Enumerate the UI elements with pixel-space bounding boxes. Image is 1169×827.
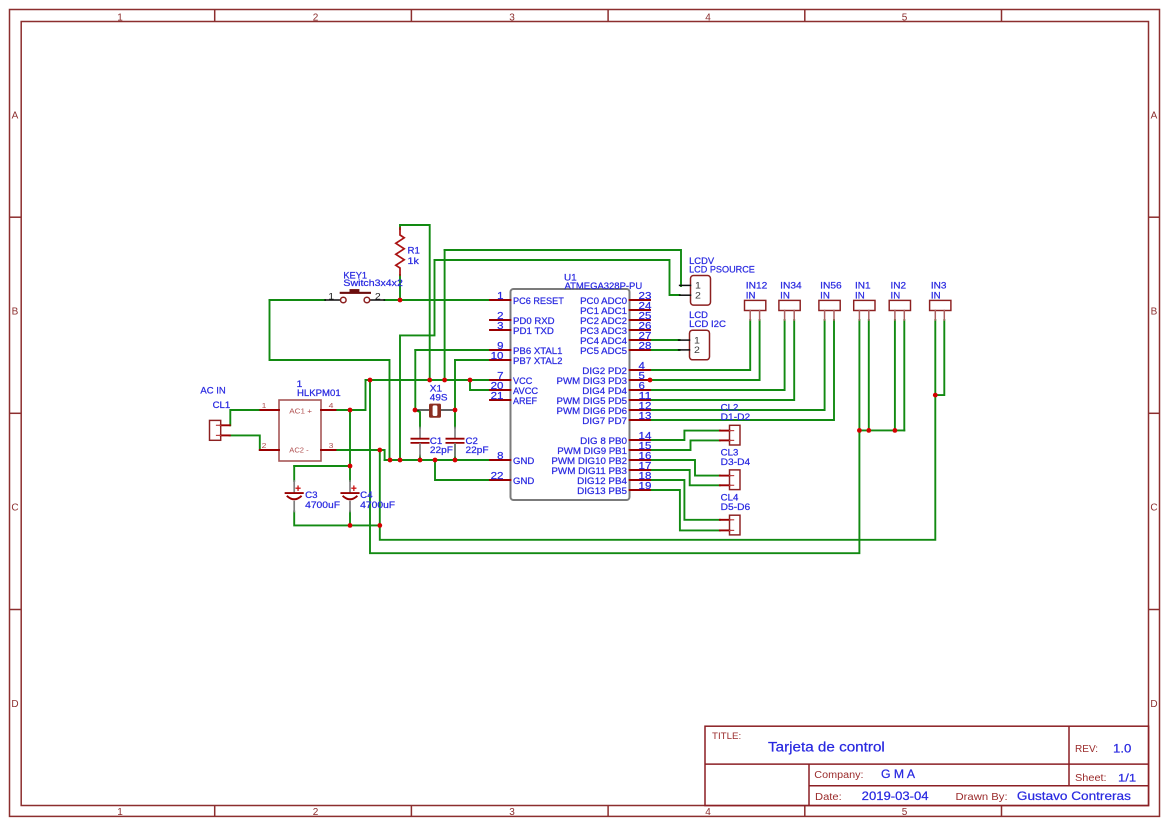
crystal X1 49S	[417, 384, 453, 418]
HLKPM01 pin 3	[321, 441, 336, 450]
wire: CL1 pin1 to HLKPM01 pin1	[230, 410, 260, 425]
wire: U1 pin9 XTAL1 to crystal	[415, 350, 490, 410]
svg-text:D1-D2: D1-D2	[721, 412, 751, 422]
U1 pin 14 (DIG 8 PB0)	[580, 431, 652, 446]
svg-text:IN: IN	[891, 290, 901, 300]
svg-text:A: A	[12, 111, 19, 122]
svg-text:PWM DIG3 PD3: PWM DIG3 PD3	[557, 376, 628, 386]
svg-text:PC6 RESET: PC6 RESET	[513, 296, 564, 306]
wire: U1 pin15 to CL2	[650, 440, 720, 450]
junction (379.8,525.4)	[377, 523, 382, 528]
HLKPM01 pin 2	[260, 441, 279, 450]
svg-text:PB6 XTAL1: PB6 XTAL1	[513, 346, 563, 356]
U1 pin 24 (PC1 ADC1)	[580, 301, 652, 316]
connector IN34 (IN)	[779, 281, 802, 321]
wire: U1 pin14 to CL2	[650, 431, 720, 440]
svg-text:28: 28	[639, 341, 652, 352]
wire: U1 pin27/pin28 to LCD I2C	[650, 340, 680, 350]
svg-text:3: 3	[329, 441, 334, 450]
svg-text:PC2 ADC2: PC2 ADC2	[580, 316, 627, 326]
U1 pin 20 (AVCC)	[490, 381, 538, 396]
svg-text:Company:: Company:	[814, 770, 863, 781]
connector CL1 (AC IN)	[200, 385, 230, 440]
junction (435,460)	[433, 458, 438, 463]
svg-text:22pF: 22pF	[430, 445, 453, 455]
junction (455,460)	[453, 458, 458, 463]
wire: IN1/IN2 pin tie	[859, 320, 904, 430]
svg-text:PWM DIG5 PD5: PWM DIG5 PD5	[557, 396, 628, 406]
connector LCDV (LCD PSOURCE)	[680, 256, 755, 305]
junction (379.8,450)	[377, 448, 382, 453]
svg-text:REV:: REV:	[1075, 744, 1098, 755]
wire: IN3 pin tie	[935, 320, 944, 395]
resistor R1 1k	[396, 228, 420, 275]
svg-text:G M A: G M A	[881, 769, 915, 781]
svg-text:1k: 1k	[408, 256, 420, 266]
U1 pin 3 (PD1 TXD)	[490, 321, 554, 336]
U1 pin 26 (PC3 ADC3)	[580, 321, 652, 336]
svg-text:PD1 TXD: PD1 TXD	[513, 326, 554, 336]
connector IN1 (IN)	[854, 281, 875, 321]
wire: U1 pin11 to IN34	[650, 320, 794, 400]
svg-text:D: D	[11, 699, 18, 710]
svg-text:PC3 ADC3: PC3 ADC3	[580, 326, 627, 336]
svg-text:AREF: AREF	[513, 396, 537, 406]
svg-text:ATMEGA328P-PU: ATMEGA328P-PU	[565, 281, 643, 291]
wire: CL1 pin2 to HLKPM01 pin2	[230, 435, 260, 450]
wire: C1 leads	[415, 410, 420, 460]
svg-text:PWM DIG6 PD6: PWM DIG6 PD6	[557, 406, 628, 416]
wire: HLKPM01 pin3 to GND row	[336, 450, 491, 460]
title block	[705, 726, 1149, 805]
svg-text:AC2 -: AC2 -	[289, 445, 309, 454]
svg-text:Switch3x4x2: Switch3x4x2	[343, 278, 403, 288]
svg-text:A: A	[1151, 111, 1158, 122]
capacitor C1 22pF	[411, 428, 453, 456]
U1 pin 10 (PB7 XTAL2)	[490, 351, 563, 366]
svg-text:1: 1	[694, 335, 700, 345]
svg-text:IN: IN	[931, 290, 941, 300]
svg-text:IN3: IN3	[931, 281, 947, 291]
wire: pin3 net down and across to IN3	[380, 320, 936, 540]
svg-text:DIG4 PD4: DIG4 PD4	[582, 386, 627, 396]
wire: U1 pin5 to IN12	[650, 320, 760, 380]
svg-text:IN: IN	[820, 290, 830, 300]
svg-text:GND: GND	[513, 456, 535, 466]
svg-text:22: 22	[491, 471, 504, 482]
svg-text:49S: 49S	[430, 392, 448, 402]
svg-text:PD0 RXD: PD0 RXD	[513, 316, 555, 326]
U1 pin 22 (GND)	[490, 471, 535, 486]
junction (429.7,380)	[427, 378, 432, 383]
svg-text:C: C	[11, 503, 18, 514]
svg-text:5: 5	[902, 807, 908, 818]
svg-text:D: D	[1150, 699, 1157, 710]
svg-text:1: 1	[695, 281, 701, 291]
svg-text:4: 4	[705, 12, 711, 23]
svg-text:4700uF: 4700uF	[305, 500, 340, 510]
U1 pin 5 (PWM DIG3 PD3)	[557, 371, 651, 386]
svg-text:D5-D6: D5-D6	[721, 502, 751, 512]
U1 pin 15 (PWM DIG9 PB1)	[557, 441, 652, 456]
svg-text:GND: GND	[513, 476, 535, 486]
svg-text:C4: C4	[360, 490, 372, 500]
svg-text:IN2: IN2	[891, 281, 907, 291]
junction (415,410)	[413, 408, 418, 413]
U1 pin 17 (PWM DIG11 PB3)	[551, 461, 651, 476]
svg-text:Gustavo Contreras: Gustavo Contreras	[1017, 789, 1131, 803]
svg-text:Drawn By:: Drawn By:	[956, 792, 1008, 803]
svg-text:2: 2	[694, 345, 700, 355]
wire: U1 pin6 to IN34	[650, 320, 785, 390]
junction (455,410)	[453, 408, 458, 413]
connector IN12 (IN)	[745, 281, 768, 321]
svg-text:DIG 8 PB0: DIG 8 PB0	[580, 436, 627, 446]
wire: U1 pin18 to CL4	[650, 480, 720, 520]
svg-text:TITLE:: TITLE:	[712, 731, 741, 742]
svg-text:21: 21	[491, 391, 504, 402]
U1 pin 18 (DIG12 PB4)	[577, 471, 652, 486]
svg-text:4: 4	[329, 401, 334, 410]
junction (444.6,380)	[442, 378, 447, 383]
svg-text:CL2: CL2	[721, 403, 739, 413]
junction (350,466)	[348, 464, 353, 469]
svg-text:3: 3	[497, 321, 504, 332]
junction (350,525.4)	[348, 523, 353, 528]
svg-text:IN1: IN1	[855, 281, 871, 291]
svg-text:1: 1	[328, 291, 334, 301]
connector LCD (LCD I2C)	[679, 310, 727, 360]
junction (350,410)	[348, 408, 353, 413]
connector CL4 (D5-D6)	[720, 493, 750, 535]
svg-text:1: 1	[117, 807, 123, 818]
wire: U1 pin17 to CL3	[650, 470, 720, 485]
svg-text:LCD PSOURCE: LCD PSOURCE	[689, 264, 755, 274]
junction (420,460)	[418, 458, 423, 463]
svg-text:2: 2	[375, 291, 381, 301]
connector CL2 (D1-D2)	[720, 403, 750, 445]
svg-text:4: 4	[705, 807, 711, 818]
U1 pin 11 (PWM DIG5 PD5)	[557, 391, 652, 406]
capacitor C4 4700uF	[341, 481, 395, 512]
svg-text:DIG2 PD2: DIG2 PD2	[582, 366, 627, 376]
svg-text:10: 10	[491, 351, 504, 362]
U1 pin 21 (AREF)	[490, 391, 537, 406]
svg-text:IN: IN	[855, 290, 865, 300]
svg-text:2019-03-04: 2019-03-04	[862, 791, 929, 803]
svg-text:3: 3	[509, 12, 515, 23]
wire: GND row jog to U1 pin22	[435, 460, 490, 480]
svg-text:2: 2	[313, 807, 319, 818]
U1 pin 28 (PC5 ADC5)	[580, 341, 652, 356]
U1 pin 7 (VCC)	[490, 371, 533, 386]
svg-text:Tarjeta de control: Tarjeta de control	[768, 740, 885, 755]
svg-text:PB7 XTAL2: PB7 XTAL2	[513, 356, 563, 366]
svg-text:PWM DIG11 PB3: PWM DIG11 PB3	[551, 466, 627, 476]
U1 pin 2 (PD0 RXD)	[490, 311, 555, 326]
svg-text:PWM DIG10 PB2: PWM DIG10 PB2	[551, 456, 627, 466]
svg-text:PC0 ADC0: PC0 ADC0	[580, 296, 627, 306]
svg-text:DIG12 PB4: DIG12 PB4	[577, 476, 627, 486]
wire: U1 pin16 to CL3	[650, 460, 720, 476]
U1 pin 4 (DIG2 PD2)	[582, 361, 650, 376]
junction (859.4,430.4)	[857, 428, 862, 433]
U1 pin 19 (DIG13 PB5)	[577, 481, 652, 496]
svg-text:IN56: IN56	[820, 281, 842, 291]
svg-text:1/1: 1/1	[1118, 773, 1136, 785]
svg-text:PWM DIG9 PB1: PWM DIG9 PB1	[557, 446, 627, 456]
svg-text:4700uF: 4700uF	[360, 500, 395, 510]
wire: U1 pin12 to IN56	[650, 320, 825, 410]
HLKPM01 pin 4	[321, 401, 336, 410]
wire: U1 pin4 to IN12	[650, 320, 750, 370]
svg-text:Sheet:: Sheet:	[1075, 773, 1107, 784]
transistor/switch KEY1 Switch3x4x2	[325, 270, 403, 302]
svg-text:IN34: IN34	[780, 281, 802, 291]
wire: C3 top to C4 top	[294, 466, 350, 481]
svg-text:PC1 ADC1: PC1 ADC1	[580, 306, 627, 316]
svg-text:C3: C3	[305, 490, 317, 500]
U1 pin 27 (PC4 ADC4)	[580, 331, 652, 346]
svg-text:1.0: 1.0	[1113, 744, 1131, 756]
connector IN3 (IN)	[930, 281, 951, 321]
connector CL3 (D3-D4)	[720, 447, 750, 489]
U1 pin 23 (PC0 ADC0)	[580, 291, 652, 306]
U1 pin 25 (PC2 ADC2)	[580, 311, 652, 326]
junction (400,300)	[398, 298, 403, 303]
U1 pin 13 (DIG7 PD7)	[582, 411, 652, 426]
svg-text:B: B	[12, 307, 19, 318]
svg-text:B: B	[1151, 307, 1158, 318]
svg-text:LCD I2C: LCD I2C	[689, 319, 726, 329]
svg-text:5: 5	[902, 12, 908, 23]
svg-text:19: 19	[639, 481, 652, 492]
wire: U1 pin10 XTAL2 to crystal	[455, 360, 490, 410]
svg-text:PC4 ADC4: PC4 ADC4	[580, 336, 627, 346]
svg-text:PC5 ADC5: PC5 ADC5	[580, 346, 627, 356]
svg-text:R1: R1	[408, 246, 420, 256]
wire: VCC down and across to IN1	[370, 320, 859, 553]
module U? HLKPM01 (AC-DC) body	[279, 379, 341, 461]
connector IN56 (IN)	[819, 281, 842, 321]
svg-text:IN: IN	[780, 290, 790, 300]
U1 pin 12 (PWM DIG6 PD6)	[557, 401, 652, 416]
U1 pin 1 (PC6 RESET)	[490, 291, 564, 306]
svg-text:Date:: Date:	[815, 792, 842, 803]
svg-text:13: 13	[639, 411, 652, 422]
svg-text:CL1: CL1	[213, 400, 231, 410]
junction (868.8,430.4)	[866, 428, 871, 433]
svg-text:HLKPM01: HLKPM01	[297, 388, 341, 398]
wire: GND to LCDV pin2	[400, 260, 680, 460]
junction (935.3,395.1)	[933, 393, 938, 398]
wire: VCC row to U1 pin7	[366, 379, 491, 381]
HLKPM01 pin 1	[260, 401, 279, 410]
svg-text:8: 8	[497, 451, 504, 462]
wire: VCC jog to U1 pin20 AVCC	[470, 380, 490, 390]
svg-text:IN12: IN12	[746, 281, 768, 291]
wire: KEY1 pin1 to GND row	[270, 300, 390, 460]
svg-text:3: 3	[509, 807, 515, 818]
svg-text:2: 2	[313, 12, 319, 23]
svg-text:C: C	[1150, 503, 1157, 514]
svg-text:IN: IN	[746, 290, 756, 300]
svg-text:DIG7 PD7: DIG7 PD7	[582, 416, 627, 426]
connector IN2 (IN)	[889, 281, 910, 321]
svg-text:AVCC: AVCC	[513, 386, 538, 396]
wire: VCC node down to C3/C4 tops	[349, 410, 351, 481]
svg-text:CL4: CL4	[721, 493, 739, 503]
op-amp/IC U1 ATMEGA328P-PU body	[511, 273, 643, 501]
wire: C2 leads	[454, 410, 456, 460]
svg-text:22pF: 22pF	[466, 445, 489, 455]
U1 pin 16 (PWM DIG10 PB2)	[551, 451, 651, 466]
capacitor C3 4700uF	[286, 481, 341, 512]
svg-text:AC1 +: AC1 +	[289, 407, 312, 416]
svg-text:CL3: CL3	[721, 447, 739, 457]
wire: VCC to LCDV pin1	[445, 250, 681, 380]
svg-text:D3-D4: D3-D4	[721, 457, 751, 467]
svg-text:VCC: VCC	[513, 376, 533, 386]
svg-text:2: 2	[262, 441, 267, 450]
wire: HLKPM01 pin4 to VCC row	[336, 380, 366, 410]
svg-text:DIG13 PB5: DIG13 PB5	[577, 486, 627, 496]
junction (370,380)	[368, 378, 373, 383]
wire: U1 pin13 to IN56	[650, 320, 834, 420]
wire: KEY1 pin2 / R1 bottom to U1 pin1 (RESET net)	[384, 275, 490, 300]
junction (650,380)	[648, 378, 653, 383]
svg-text:2: 2	[695, 291, 701, 301]
svg-text:AC IN: AC IN	[200, 385, 225, 395]
svg-text:1: 1	[497, 291, 504, 302]
junction (470,380)	[468, 378, 473, 383]
capacitor C2 22pF	[446, 428, 489, 456]
junction (400,460)	[398, 458, 403, 463]
U1 pin 8 (GND)	[490, 451, 535, 466]
U1 pin 6 (DIG4 PD4)	[582, 381, 650, 396]
junction (894.9,430.4)	[893, 428, 898, 433]
U1 pin 9 (PB6 XTAL1)	[490, 341, 563, 356]
svg-text:1: 1	[262, 401, 267, 410]
wire: R1 top to VCC row	[400, 225, 430, 380]
junction (390,460)	[388, 458, 393, 463]
svg-text:1: 1	[117, 12, 123, 23]
wire: C3/C4 bottom rail	[294, 512, 380, 526]
wire: U1 pin19 to CL4	[650, 490, 720, 530]
